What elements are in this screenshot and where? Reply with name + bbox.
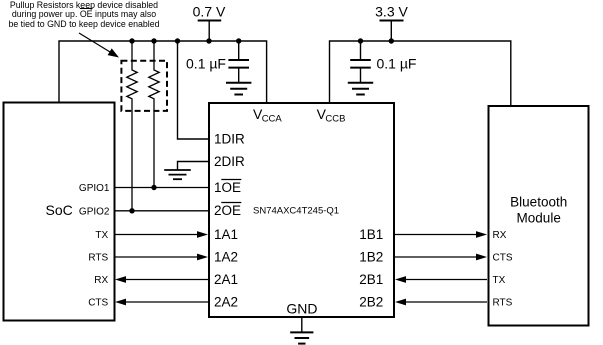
svg-text:TX: TX	[493, 275, 506, 286]
svg-text:2OE: 2OE	[214, 203, 241, 218]
svg-text:2DIR: 2DIR	[214, 154, 245, 169]
svg-text:GPIO1: GPIO1	[79, 183, 110, 194]
svg-text:3.3 V: 3.3 V	[375, 3, 408, 19]
svg-text:1B2: 1B2	[359, 249, 383, 264]
svg-text:CTS: CTS	[493, 253, 513, 264]
svg-text:1B1: 1B1	[359, 227, 383, 242]
svg-text:1A1: 1A1	[214, 227, 238, 242]
svg-text:RX: RX	[94, 275, 108, 286]
svg-text:Bluetooth: Bluetooth	[510, 194, 567, 209]
svg-text:RTS: RTS	[88, 253, 108, 264]
svg-text:Module: Module	[517, 210, 561, 225]
svg-text:GPIO2: GPIO2	[79, 206, 110, 217]
svg-text:2A2: 2A2	[214, 294, 238, 309]
svg-text:1A2: 1A2	[214, 249, 238, 264]
svg-text:RTS: RTS	[493, 298, 513, 309]
svg-text:2B1: 2B1	[359, 272, 383, 287]
svg-text:0.1 µF: 0.1 µF	[377, 55, 417, 71]
svg-text:2A1: 2A1	[214, 272, 238, 287]
svg-text:SN74AXC4T245-Q1: SN74AXC4T245-Q1	[253, 205, 339, 216]
svg-text:CCB: CCB	[325, 113, 345, 124]
svg-text:1OE: 1OE	[214, 180, 241, 195]
svg-text:TX: TX	[95, 230, 108, 241]
svg-text:2B2: 2B2	[359, 294, 383, 309]
svg-text:RX: RX	[493, 230, 507, 241]
svg-text:0.1 µF: 0.1 µF	[186, 55, 226, 71]
svg-text:SoC: SoC	[46, 202, 73, 218]
svg-text:CTS: CTS	[88, 298, 108, 309]
svg-text:1DIR: 1DIR	[214, 131, 245, 146]
svg-text:GND: GND	[286, 301, 317, 317]
svg-text:0.7 V: 0.7 V	[193, 3, 226, 19]
svg-text:CCA: CCA	[262, 113, 283, 124]
